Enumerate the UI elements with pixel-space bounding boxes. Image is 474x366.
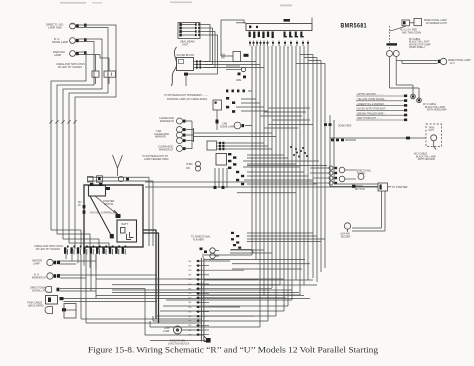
label flasher (191, 236, 211, 242)
wire front-lamp bundle 2 (69, 28, 109, 250)
starter feed nub (352, 185, 356, 188)
splice starter (116, 214, 121, 218)
tank sender (431, 135, 437, 141)
feed drop curve (390, 26, 407, 31)
wire jog m5 (268, 124, 313, 126)
wire starter drop 2 (352, 191, 385, 231)
comp row 2 left strip (231, 244, 253, 253)
connector pairs junction (196, 60, 201, 68)
svg-text:NO: NO (78, 202, 82, 204)
label directional lamp rh (424, 19, 448, 25)
wire front-lamp bundle 3 (63, 39, 102, 249)
wire bus column 3 (259, 46, 261, 327)
clearance lamp 3 (177, 132, 186, 138)
svg-text:BLACK TAIL LAMP: BLACK TAIL LAMP (416, 155, 436, 158)
label horn (163, 328, 170, 333)
wire long row 192 (237, 192, 296, 194)
wire cluster drop long 1 (80, 254, 82, 319)
smudge 1 (60, 2, 102, 4)
wire bus column 5 (267, 46, 269, 321)
svg-text:W/ 2 CABLE: W/ 2 CABLE (414, 153, 428, 156)
marker lamp right 2 (393, 51, 399, 57)
wire bus turn g (247, 232, 313, 234)
wire jog m1 (268, 107, 310, 109)
wire mid cross 1 (145, 181, 313, 183)
wire batt drop right 2 (152, 181, 154, 246)
wire starter feed a (330, 186, 378, 188)
svg-text:LAMP: LAMP (33, 262, 40, 265)
wire lamp row 4a (64, 298, 311, 300)
wire clearance join (186, 121, 194, 149)
cluster pin ticks (249, 41, 309, 47)
svg-text:WHITE STOP LAMP: WHITE STOP LAMP (409, 43, 431, 46)
cluster connector group 2 (284, 32, 304, 38)
wire bus column 7 (275, 46, 277, 316)
heater box (207, 141, 217, 150)
B.O. drive lamp (70, 38, 79, 44)
fuel tank dashed box (426, 124, 442, 147)
comp left of strip rows (231, 232, 239, 244)
throttle connector stack (226, 97, 235, 113)
headlamp connector block (178, 23, 200, 39)
svg-text:TO DIRECTIONAL: TO DIRECTIONAL (191, 236, 211, 239)
wire front-lamp bundle 1 (75, 25, 116, 249)
wire horn stub (166, 327, 201, 330)
cable funnel symbol (113, 155, 123, 176)
wire cluster drop long 2 (85, 254, 87, 323)
battery box (117, 220, 137, 242)
wire bus turn i (247, 241, 321, 243)
junction strip end blob (204, 338, 211, 343)
accessory cluster (310, 166, 356, 185)
label directional 12v (448, 59, 471, 65)
wire lamp row 3a (60, 288, 145, 290)
tail connector circle 1 (411, 94, 416, 99)
wire loop bottom 1 (150, 321, 260, 327)
label low air (340, 233, 351, 239)
wire bus column 1 (251, 46, 253, 255)
wire loop bottom 4 (160, 310, 284, 312)
wire corner b (86, 322, 201, 324)
label B.O. drive lamp (52, 37, 68, 44)
wire bus turn f (232, 268, 302, 270)
svg-text:RD: RD (189, 270, 192, 272)
wire lamp row 3b (60, 290, 96, 292)
wire loop bottom 3 (157, 315, 276, 317)
svg-text:W/ 2 CABLE: W/ 2 CABLE (423, 103, 437, 106)
svg-text:AMM: AMM (236, 79, 241, 82)
label running lamp (167, 98, 207, 101)
junction strip taps (189, 260, 287, 337)
wire lamp row 2a (60, 274, 157, 276)
smudge 3 (280, 5, 292, 7)
svg-text:IGN: IGN (221, 55, 225, 57)
wires heater rows (217, 143, 273, 149)
label batt (122, 222, 129, 226)
label cab marker (154, 130, 169, 139)
ammeter inline (118, 176, 129, 181)
parking lamp (70, 51, 79, 57)
svg-text:BK: BK (189, 275, 192, 277)
fuse bundle verticals (214, 168, 228, 189)
wire bus column 2 (255, 46, 257, 260)
svg-text:RD: RD (189, 279, 192, 281)
heater indicator lamp (47, 259, 56, 265)
svg-text:DOME FEED: DOME FEED (338, 126, 352, 128)
svg-text:BK: BK (189, 302, 192, 304)
dimmer glyph (216, 110, 219, 130)
svg-text:UNIT: UNIT (182, 42, 188, 46)
fuse connectors (236, 171, 244, 185)
svg-text:LAMP FENDER SPEC: LAMP FENDER SPEC (144, 158, 169, 161)
wire loop outer (145, 289, 204, 336)
smudge 2 (170, 2, 192, 4)
wire dome stub (245, 125, 252, 127)
connector pairs headlamp (195, 23, 200, 36)
svg-text:LOW AIR: LOW AIR (340, 233, 350, 236)
wire box stubs (96, 55, 110, 85)
wire bus column 19 (324, 64, 326, 269)
wire starter diag (95, 196, 118, 215)
wire top feed right (311, 18, 313, 24)
wire clearance lower (186, 148, 192, 150)
label to RH headlight (164, 94, 208, 97)
svg-text:DOME LAMP: DOME LAMP (220, 125, 235, 128)
battery compartment box (84, 185, 143, 247)
label twin cable rear (27, 302, 44, 308)
wires fuse rows (244, 172, 317, 184)
wire loop bottom 6 (166, 299, 292, 301)
svg-text:LOW: LOW (164, 328, 170, 330)
wire corner a (81, 318, 201, 320)
trailer wire row 3 (356, 103, 407, 107)
wires headlamp rows (182, 25, 196, 36)
svg-text:BMR5681: BMR5681 (341, 23, 368, 30)
label to starter (388, 185, 408, 189)
connector nub 2 (57, 274, 60, 278)
wire junction to bus b (205, 64, 260, 66)
clearance lamp 4 (177, 138, 186, 144)
wire lamp rows lower (96, 279, 304, 295)
wire lamp row 4b (64, 301, 158, 303)
loop box rear (64, 304, 76, 319)
wire batt top 2 (88, 180, 153, 182)
wire bus turn d (230, 252, 272, 254)
wire right drop pair (396, 85, 419, 98)
label no12 gauge (400, 29, 421, 35)
svg-text:DIRECTIONAL LAMP: DIRECTIONAL LAMP (424, 19, 447, 22)
label bo marker (32, 274, 47, 280)
wire dome long 2 (194, 136, 277, 138)
splice blob (184, 73, 188, 76)
wire lamp row 1b (60, 263, 76, 265)
svg-text:LAMP: LAMP (163, 330, 170, 333)
svg-text:12 V: 12 V (450, 63, 455, 65)
trailer wire row 2 (356, 98, 407, 102)
connector nub right lamp (438, 60, 441, 63)
svg-text:BUTTON: BUTTON (355, 189, 365, 191)
right feed connector (402, 20, 410, 26)
wire jog m4 (272, 119, 310, 121)
svg-text:SIGNAL LP: SIGNAL LP (32, 289, 45, 292)
trailer wire row 6 (356, 118, 407, 121)
dimmer switch box (213, 100, 222, 110)
label clearance marker lower (158, 146, 174, 152)
svg-text:RD: RD (189, 307, 192, 309)
tail connector circle 2 (417, 98, 422, 103)
label dome lamp (220, 123, 235, 129)
trailer wire row 1 (356, 94, 407, 97)
label w2 cable tail (423, 103, 447, 112)
wire headlamp drop 1 (200, 25, 210, 62)
wire cigar stub (221, 54, 249, 57)
wire bus column 8 (279, 46, 281, 285)
label horn button (355, 186, 365, 191)
wire bottom long (150, 340, 206, 342)
wire bus turn e (232, 263, 310, 265)
wire lamp row 1a (60, 260, 96, 262)
wire bus turn j (247, 238, 325, 240)
wire bus column 14 (303, 46, 305, 285)
marker lamp right 1 (387, 51, 393, 57)
junction blob dots (290, 146, 308, 158)
svg-text:IND: IND (186, 168, 190, 170)
horn button lamp (174, 326, 182, 334)
wire bus column 16 (312, 55, 314, 279)
wire lamp pair right a (390, 57, 414, 89)
wire loop bottom 7 (197, 294, 300, 296)
svg-text:BLACK TAIL LIGHT: BLACK TAIL LIGHT (409, 41, 430, 44)
wire jog tr4 (296, 63, 325, 65)
wire loop bottom 9 (204, 279, 313, 281)
comp batt top a (88, 177, 94, 183)
directional housing box (414, 19, 422, 26)
wire headlamp drop 2 (200, 28, 212, 65)
wire bus column 20 (329, 115, 331, 187)
headlamp socket cluster (64, 246, 126, 255)
svg-text:UNIT: UNIT (429, 130, 435, 132)
svg-text:(BACK WIRE): (BACK WIRE) (28, 304, 44, 307)
wire to tank (330, 137, 426, 139)
wire starter feed b (334, 183, 378, 185)
svg-text:DRIVE LAMP: DRIVE LAMP (52, 40, 68, 44)
caption (88, 346, 378, 355)
wire dash drop (389, 26, 391, 50)
wire bus turn a (204, 254, 252, 256)
svg-text:MARKER LP: MARKER LP (32, 276, 47, 279)
starter motor (89, 183, 111, 196)
gauge lamps above strip (210, 248, 219, 259)
rear directional glyph (45, 307, 66, 314)
wire heavy cable 2 (143, 233, 159, 323)
mid row glyphs (331, 139, 356, 142)
wires throttle rows (236, 99, 268, 111)
cable squiggle (172, 47, 177, 86)
svg-text:MARKER LP: MARKER LP (159, 148, 174, 151)
wires junction rows (194, 62, 206, 68)
cigar lighter box (233, 52, 241, 62)
svg-text:LAMP ASM: LAMP ASM (48, 26, 62, 30)
wire cluster drop 96 (95, 254, 97, 299)
svg-text:SIGNAL: SIGNAL (357, 172, 366, 175)
label no 00 (78, 202, 82, 207)
wire loop bottom 5 (163, 305, 288, 307)
wire front-lamp stub 6 (79, 54, 100, 56)
svg-text:MARKER: MARKER (155, 136, 166, 139)
wire lamp pair right c (402, 61, 438, 64)
wire jog tr2 (304, 57, 317, 59)
svg-text:RD: RD (189, 265, 192, 267)
wire jog m3 (260, 115, 302, 117)
connector nub 1 (57, 261, 60, 265)
wire splice down (185, 76, 187, 86)
wire batt left drop (83, 185, 86, 228)
wire bus column 17 (316, 58, 318, 283)
svg-text:WITH HEADLAMP: WITH HEADLAMP (427, 109, 447, 112)
label run note (89, 212, 117, 215)
wires ignition fan (243, 155, 319, 167)
wire mid cross 2 (145, 186, 378, 188)
svg-text:- RUN NO. 10 PARALLEL -: - RUN NO. 10 PARALLEL - (89, 212, 117, 215)
wire bus column 12 (295, 46, 297, 280)
low air indicator (344, 223, 350, 232)
connector tank wire (406, 137, 410, 140)
svg-text:MARKER LP: MARKER LP (160, 120, 175, 123)
wire bus column 21 (333, 120, 335, 184)
svg-text:RD: RD (189, 311, 192, 313)
label heater lamp (32, 260, 42, 266)
wire bus turn c (230, 249, 264, 251)
label cover block (177, 54, 195, 57)
wire heavy cable 1 (143, 230, 156, 319)
svg-text:FLASHER: FLASHER (193, 238, 204, 241)
battery plates (127, 232, 134, 240)
svg-text:W/ LEFT BY SOCKET: W/ LEFT BY SOCKET (58, 66, 83, 69)
wire jog tr3 (308, 60, 321, 62)
svg-text:WITH GROUND: WITH GROUND (418, 159, 435, 161)
starter connector sym (378, 183, 388, 191)
wire jog m6 (264, 127, 298, 129)
svg-text:W/ LEFT BY SOCKET: W/ LEFT BY SOCKET (36, 248, 61, 251)
label cable asm twin (34, 245, 63, 251)
instrument cluster box (246, 24, 312, 31)
wire bus column 15 (307, 46, 309, 280)
label w-cable right (409, 38, 431, 49)
wire bus column 11 (291, 46, 293, 300)
svg-text:TO RH HEADLIGHT W/HARNESS - -: TO RH HEADLIGHT W/HARNESS - - - - (164, 94, 208, 97)
svg-text:TO STARTER: TO STARTER (392, 185, 408, 189)
ignition connector stack (228, 153, 236, 169)
splice battery cable (110, 234, 114, 238)
resistor box F1 (92, 71, 99, 77)
label cable asm front (56, 63, 85, 69)
wire bus column 18 (320, 61, 322, 273)
wire lamp pair right b (396, 57, 437, 86)
clearance lamp 2 (177, 127, 186, 133)
wire front-lamp bundle 4 (57, 42, 94, 250)
directional feed lamp (356, 170, 372, 180)
svg-text:LAMP: LAMP (54, 53, 61, 57)
beam indicator lamps (186, 161, 201, 171)
wire batt drop right 1 (148, 177, 150, 246)
connector pairs heater (219, 142, 224, 150)
wire top feed (221, 20, 244, 56)
clearance lamp 5 (177, 146, 186, 152)
trailer wire row 5 (356, 112, 407, 116)
svg-text:BUZZER: BUZZER (341, 236, 351, 238)
svg-text:RUNNING LAMP (W/ CABLE SPEC): RUNNING LAMP (W/ CABLE SPEC) (167, 98, 207, 101)
battery terminal sq (121, 228, 126, 234)
label parking lamp (53, 50, 65, 57)
trailer wire row 4 (356, 108, 407, 112)
label clearance marker 1 (159, 117, 175, 123)
ignition switch box (216, 154, 227, 166)
svg-text:BLACK TAIL LAMP: BLACK TAIL LAMP (425, 106, 445, 109)
wire small stub top (236, 22, 246, 24)
wire battery diag cable (90, 196, 112, 236)
wire loop bottom 2 (153, 316, 268, 321)
wire rear glyph row (66, 309, 76, 311)
wire junction to bus a (205, 61, 256, 63)
wire junction to bus c (205, 67, 264, 69)
wire jog tr1 (300, 54, 313, 56)
connector ticks front lamps (84, 24, 87, 55)
junction arrow (204, 336, 207, 339)
top small comp row (226, 90, 252, 93)
wire bus column 4 (263, 46, 265, 295)
wire bus turn h (247, 235, 317, 237)
directional lamp right (440, 58, 446, 64)
wire bus column 13 (299, 46, 301, 295)
wire bus column 10 (287, 46, 289, 306)
svg-text:NO 12 GA. RED: NO 12 GA. RED (400, 29, 417, 32)
comp above strip (200, 248, 208, 259)
svg-text:W/ MARKER LIGHT: W/ MARKER LIGHT (426, 22, 448, 25)
svg-text:RD: RD (189, 293, 192, 295)
svg-text:COVER BLOCK: COVER BLOCK (177, 54, 195, 57)
connector on top feed (284, 19, 291, 22)
junction block box (177, 58, 194, 71)
directional signal lamp LF (70, 23, 79, 29)
wire to directional housing (410, 22, 415, 24)
svg-text:W/ CABLE: W/ CABLE (409, 38, 421, 41)
svg-text:00: 00 (78, 205, 81, 207)
dome lamp (234, 122, 244, 129)
rear socket connector (46, 296, 64, 305)
label starter motor (103, 200, 114, 206)
wire lamp row 2b (60, 277, 86, 279)
label dash panel junction (168, 340, 190, 346)
wire headlamp drop 4 (188, 35, 218, 74)
svg-text:AND TWIN CONN: AND TWIN CONN (402, 31, 421, 34)
wire dome long 1 (194, 132, 273, 134)
splice ticks on bundle (49, 120, 76, 123)
wire cluster drop 91 (90, 254, 92, 291)
label tank unit (429, 127, 435, 133)
svg-text:BK: BK (189, 261, 192, 263)
wire starter drop 1 (352, 191, 382, 228)
wire jog m2 (264, 111, 306, 113)
svg-text:(PARK SHELL): (PARK SHELL) (409, 46, 425, 49)
wire bus column 9 (283, 46, 285, 311)
junction strip (201, 258, 204, 342)
junction bar right (387, 43, 398, 45)
wire long row 165 (247, 165, 327, 167)
wire loop bottom 8 (197, 284, 317, 286)
label seal beam unit (180, 40, 194, 47)
svg-text:HI BM: HI BM (186, 164, 193, 166)
svg-text:BATT: BATT (122, 222, 129, 226)
